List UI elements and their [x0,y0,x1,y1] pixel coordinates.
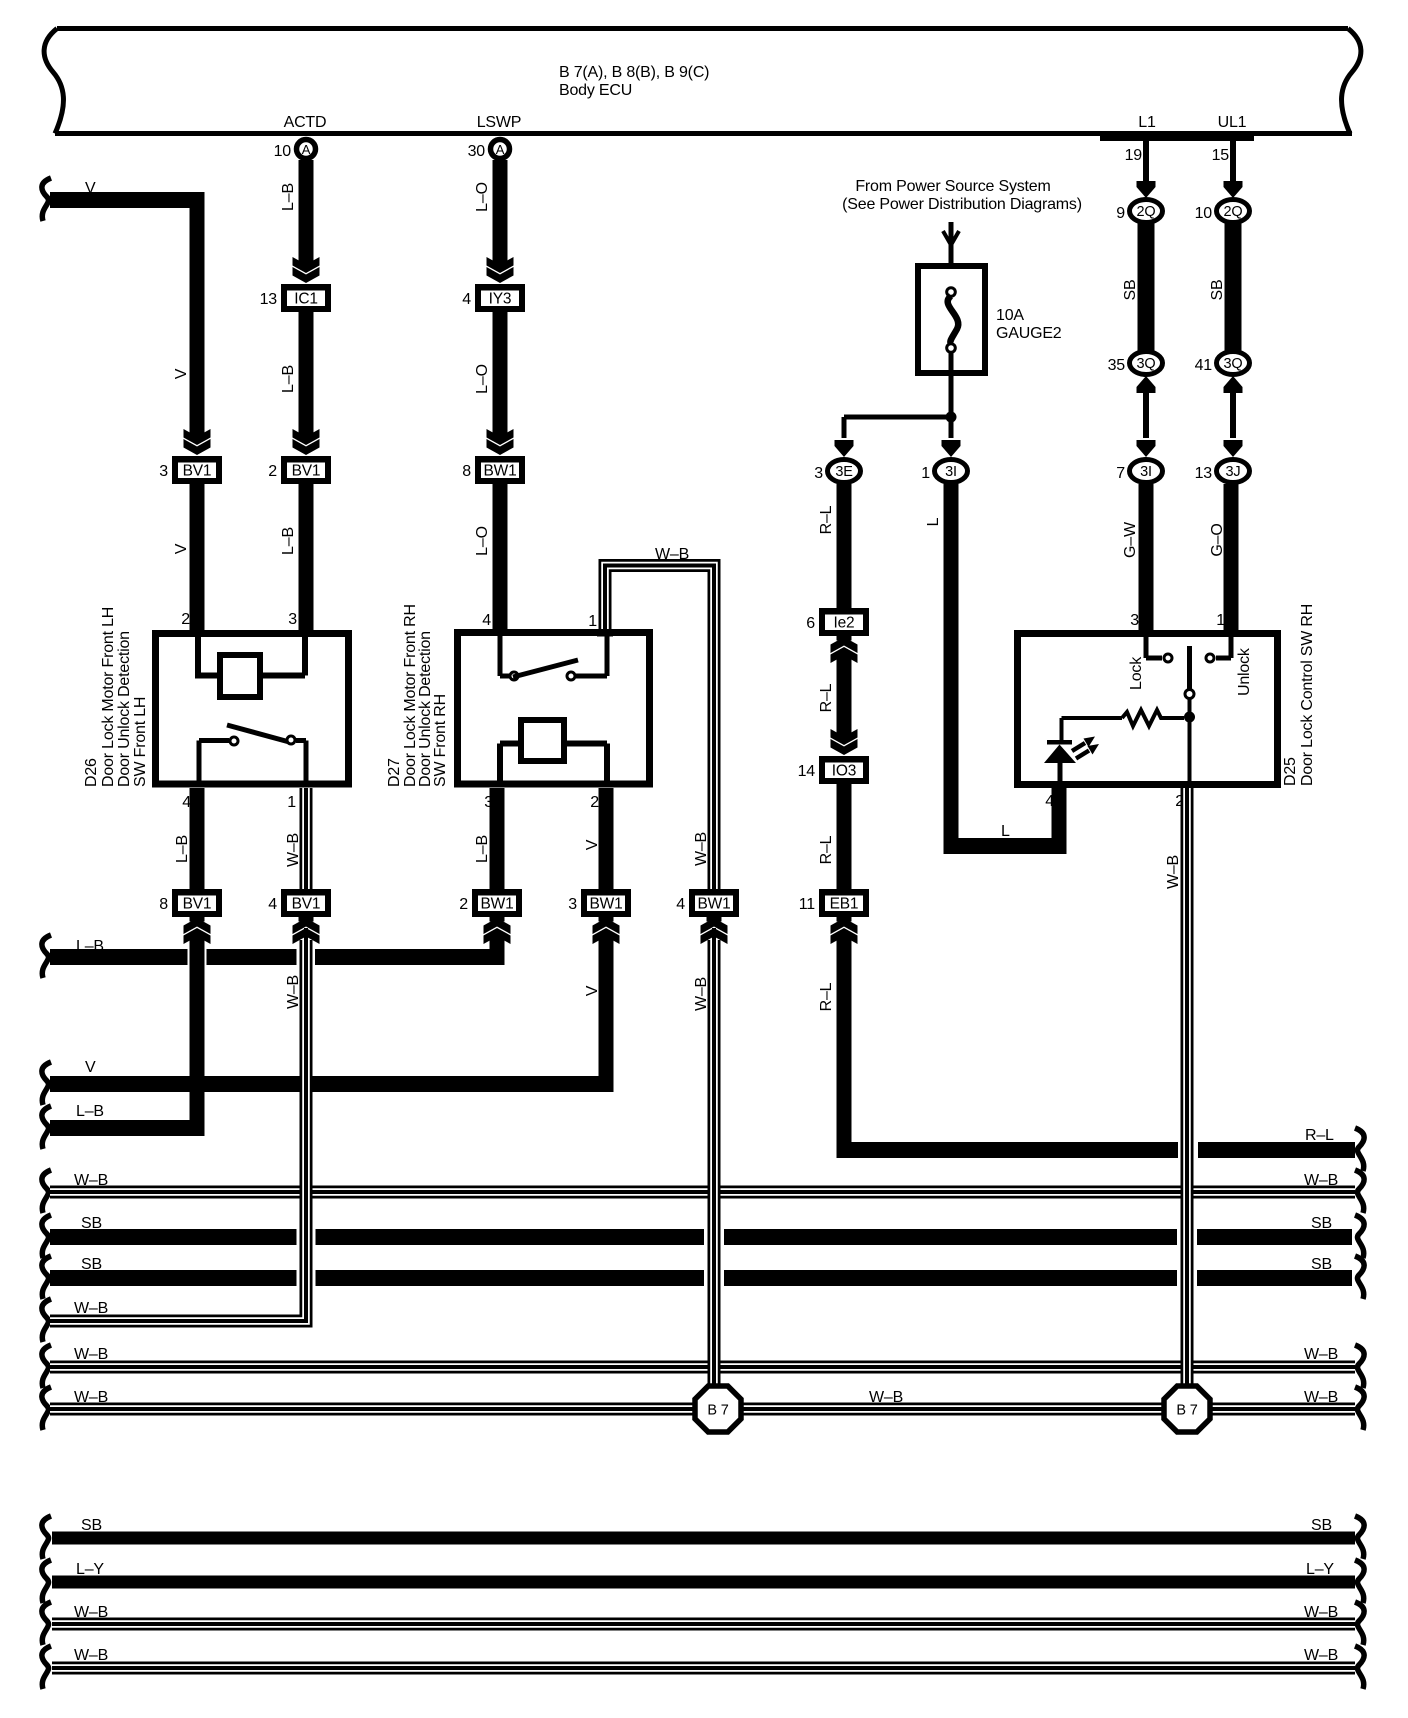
svg-text:L–B: L–B [474,835,491,863]
D26 motor wiring left [195,637,201,676]
connector 1 3I [935,460,968,483]
row2 SB wire [50,1229,297,1245]
svg-text:B 7: B 7 [707,1403,728,1419]
D27 switch blade [513,660,578,677]
connector 13 IC1 [281,284,331,312]
brace row1 right [1355,1170,1364,1213]
svg-text:V: V [173,543,190,554]
svg-text:L–B: L–B [174,835,191,863]
wire L-O IY3 to BW1 [493,312,508,438]
svg-text:10: 10 [274,143,292,160]
svg-text:1: 1 [1216,612,1225,629]
svg-text:V: V [584,985,601,996]
brace rowA right [1355,1516,1364,1559]
svg-text:G–O: G–O [1209,523,1226,556]
svg-text:8: 8 [462,463,471,480]
svg-text:2: 2 [459,896,468,913]
arrow up below 3Q [1137,376,1156,393]
D26 switch contact left [230,737,238,745]
svg-text:GAUGE2: GAUGE2 [996,325,1062,342]
arrow up into 4 BV1 [299,917,314,922]
connector 3 BW1 row B [581,889,631,917]
arrow up into 3 BW1 [599,917,614,922]
svg-text:11: 11 [799,896,816,913]
D27 motor wiring right [564,741,607,747]
D25 lock contact [1164,654,1172,662]
svg-text:3E: 3E [835,464,853,480]
svg-text:D27: D27 [386,758,403,787]
wire G-O to D25 pin1 [1224,484,1239,632]
door lock control SW RH D25 box [1018,634,1278,785]
svg-text:R–L: R–L [818,982,835,1011]
brace V feed [42,178,51,221]
connector 7 3I [1130,460,1163,483]
svg-text:ACTD: ACTD [284,114,327,131]
row1 W-B wire [50,1186,1355,1199]
svg-text:D25: D25 [1282,757,1299,786]
svg-text:9: 9 [1116,205,1125,222]
svg-text:A: A [302,142,311,157]
connector 8 BW1 [475,456,525,484]
svg-text:1: 1 [588,613,597,630]
W-B wire 4BV1 down to row4 corner [50,940,306,1321]
svg-text:W–B: W–B [655,546,689,563]
svg-text:V: V [85,1059,96,1076]
wire 3Q to 3I [1143,393,1149,438]
arrow into 8 BW1 [493,430,508,440]
svg-text:30: 30 [468,143,486,160]
svg-text:2Q: 2Q [1224,204,1243,220]
wire from L1 pin [1143,136,1149,181]
svg-text:10: 10 [1195,205,1213,222]
svg-text:SB: SB [1311,1256,1332,1273]
D26 switch blade [227,725,293,743]
wire from UL1 pin [1230,136,1236,181]
connector 8 BV1 row B [172,889,222,917]
svg-text:W–B: W–B [1304,1647,1338,1664]
D26 motor square [220,655,260,697]
wire L-B from ACTD pin [299,160,314,263]
svg-text:19: 19 [1125,147,1143,164]
pin 10 circle A (ACTD) [297,140,316,159]
arrow into 2Q left [1137,181,1156,198]
connector 14 IO3 [819,756,869,784]
svg-text:BW1: BW1 [484,463,517,480]
wire junction to 3I [949,417,954,438]
brace row1 left [42,1170,51,1213]
arrow into IY3 [493,258,508,268]
svg-text:10A: 10A [996,307,1024,324]
fuse element [947,288,956,297]
connector 3 3E [828,460,861,483]
wire W-B vertical x714 lower [708,940,721,1387]
brace L-B bus2 [42,1106,51,1149]
wire L up into D25 pin4 [1052,786,1067,854]
svg-text:41: 41 [1195,357,1213,374]
svg-text:W–B: W–B [869,1389,903,1406]
svg-text:1: 1 [921,465,930,482]
brace L-B bus1 [42,935,51,978]
svg-text:L–B: L–B [280,365,297,393]
svg-text:W–B: W–B [74,1346,108,1363]
brace rowC left [42,1602,51,1645]
brace row4 left [42,1299,51,1342]
wire V horizontal [50,192,205,208]
wire L-B bus1 seg2 [207,949,297,965]
svg-text:8: 8 [159,896,168,913]
arrow up below EB1 [837,917,852,922]
svg-text:SB: SB [1209,280,1226,301]
row3 SB wire [50,1270,297,1286]
svg-text:3: 3 [814,465,823,482]
svg-text:L–O: L–O [474,182,491,212]
wire R-L horizontal seg1 [837,1142,1179,1158]
D26 motor wiring right [260,673,305,679]
arrow into 3I [1137,440,1156,457]
D27 motor square [521,720,564,761]
D27 motor wiring left [500,741,521,747]
connector 2 BV1 [281,456,331,484]
rowD W-B wire [52,1662,1355,1675]
D25 unlock contact [1206,654,1214,662]
wire W-B vertical x1187 from D25 pin2 [1181,788,1194,1387]
svg-text:35: 35 [1108,357,1126,374]
wire V BV1 to D26 pin2 [190,484,205,632]
ground splice B7 left [695,1386,741,1432]
connector 9 2Q [1130,200,1163,223]
brace R-L right [1355,1128,1364,1171]
brace row2 right [1355,1215,1364,1258]
svg-text:V: V [584,839,601,850]
svg-text:IY3: IY3 [489,291,512,308]
svg-text:L–O: L–O [474,364,491,394]
wire L-B bus1 seg3 [315,949,505,965]
svg-text:L–Y: L–Y [76,1561,104,1578]
wire SB 2Q to 3Q [1138,222,1155,352]
svg-text:3J: 3J [1226,464,1241,480]
rowA SB wire [52,1532,1355,1545]
svg-text:IC1: IC1 [294,291,318,308]
svg-text:SB: SB [1311,1517,1332,1534]
wire SB 2Q to 3Q right [1225,222,1242,352]
wire L-B bus1 seg1 [50,949,188,965]
svg-text:L–Y: L–Y [1306,1561,1334,1578]
svg-text:Door Unlock Detection: Door Unlock Detection [116,631,133,787]
svg-text:B 7(A), B 8(B), B 9(C): B 7(A), B 8(B), B 9(C) [559,64,709,81]
wire fuse to junction [949,376,954,417]
wire L-O BW1 to D27 pin4 [493,484,508,632]
wire L-B BV1 to D26 pin3 [299,484,314,632]
wire 3 BW1 down to V bus [599,936,614,1092]
connector 4 IY3 [475,284,525,312]
svg-text:4: 4 [268,896,277,913]
svg-text:4: 4 [1045,793,1054,810]
svg-text:SW Front RH: SW Front RH [432,694,449,787]
D25 LED emission arrows [1072,743,1085,751]
svg-text:3Q: 3Q [1137,356,1156,372]
svg-text:2: 2 [181,611,190,628]
ECU box B7/B8/B9 Body ECU [57,26,1348,31]
wire R-L corner [837,1142,852,1158]
rowB L-Y wire [52,1576,1355,1589]
arrow into 2 BV1 [299,430,314,440]
svg-text:W–B: W–B [693,832,710,866]
svg-text:W–B: W–B [1304,1389,1338,1406]
svg-text:L–B: L–B [76,1103,104,1120]
svg-text:(See Power Distribution Diagra: (See Power Distribution Diagrams) [842,196,1082,213]
D27 switch contact right [567,672,575,680]
svg-text:L–B: L–B [280,527,297,555]
branch wire to 3E [844,415,951,420]
svg-text:14: 14 [798,763,816,780]
wire into fuse [949,222,954,292]
connector 2 BW1 row B [472,889,522,917]
svg-text:IO3: IO3 [832,763,856,780]
wire R-L horizontal seg2 [1198,1142,1355,1158]
svg-text:2: 2 [268,463,277,480]
svg-text:7: 7 [1116,465,1125,482]
D27 switch contact left [510,672,518,680]
arrow up into 4 BW1 [707,917,722,922]
svg-text:BV1: BV1 [183,896,212,913]
D26 switch wiring right [296,738,306,743]
W-B wire from D26 pin1 [300,788,313,890]
svg-text:Lock: Lock [1128,656,1145,690]
svg-text:G–W: G–W [1122,521,1139,558]
brace row3 right [1355,1256,1364,1299]
brace row6 left [42,1387,51,1430]
connector 10 2Q [1217,200,1250,223]
arrow into 3J [1224,440,1243,457]
wire R-L EB1 down [837,936,852,1158]
brace rowB left [42,1560,51,1603]
svg-text:3: 3 [1130,612,1139,629]
svg-text:3: 3 [288,611,297,628]
svg-text:W–B: W–B [74,1300,108,1317]
svg-text:BW1: BW1 [481,896,514,913]
wire R-L from 3E [837,484,852,609]
pin 30 circle A (LSWP) [491,140,510,159]
row6 W-B wire [50,1403,1355,1416]
svg-text:4: 4 [462,291,471,308]
D27 switch wiring left [498,636,503,676]
svg-text:A: A [496,142,505,157]
svg-text:BW1: BW1 [698,896,731,913]
arrow into IC1 [299,258,314,268]
svg-text:W–B: W–B [1165,855,1182,889]
svg-text:Door Lock Motor Front LH: Door Lock Motor Front LH [100,607,117,787]
wire L-B IC1 to BV1 [299,312,314,438]
svg-text:SB: SB [1311,1215,1332,1232]
svg-text:2Q: 2Q [1137,204,1156,220]
connector 6 Ie2 [819,608,869,636]
wire from 8 BV1 down to L-B bus2 [190,936,205,1128]
svg-text:W–B: W–B [74,1647,108,1664]
connector 3 BV1 [172,456,222,484]
wire G-W to D25 pin3 [1139,484,1154,632]
arrow into 3 BV1 [190,430,205,440]
svg-text:EB1: EB1 [830,896,859,913]
svg-text:R–L: R–L [818,835,835,864]
svg-text:SB: SB [1122,280,1139,301]
svg-text:W–B: W–B [285,833,302,867]
connector 11 EB1 [819,889,869,917]
door lock motor front RH D27 box [458,633,650,785]
svg-text:V: V [173,368,190,379]
svg-text:R–L: R–L [1305,1127,1334,1144]
D25 lock wiring [1144,637,1149,658]
svg-text:W–B: W–B [1304,1172,1338,1189]
connector 41 3Q [1217,352,1250,375]
arrow into 2Q right [1224,181,1243,198]
svg-text:LSWP: LSWP [477,114,522,131]
svg-text:W–B: W–B [285,975,302,1009]
svg-text:Door Lock Control SW RH: Door Lock Control SW RH [1299,604,1316,786]
brace row3 left [42,1256,51,1299]
wire L horizontal [944,838,1067,854]
fuse 10A GAUGE2 box [918,266,985,373]
D26 switch contact right [287,736,295,744]
wire L from 3I down [944,484,959,854]
connector 35 3Q [1130,352,1163,375]
svg-text:From Power Source System: From Power Source System [855,178,1050,195]
svg-text:Body ECU: Body ECU [559,82,632,99]
wire 3Q to 3J [1230,393,1236,438]
svg-text:3Q: 3Q [1224,356,1243,372]
wire L-B bus2 [50,1120,205,1136]
D26 switch wiring left [199,738,229,743]
D25 wire to pin2 [1188,717,1192,781]
svg-text:Ie2: Ie2 [834,615,855,632]
svg-text:UL1: UL1 [1218,114,1247,131]
svg-text:L–B: L–B [280,183,297,211]
svg-text:BV1: BV1 [292,896,321,913]
ground splice B7 right [1164,1386,1210,1432]
rowC W-B wire [52,1618,1355,1631]
wire V from D27 pin2 [599,788,614,890]
svg-text:R–L: R–L [818,505,835,534]
svg-text:3I: 3I [1140,464,1152,480]
brace rowB right [1355,1560,1364,1603]
svg-text:BW1: BW1 [590,896,623,913]
svg-text:13: 13 [260,291,278,308]
arrow up into 8 BV1 [190,917,205,922]
svg-text:W–B: W–B [1304,1346,1338,1363]
wire R-L IO3 to EB1 [837,784,852,890]
svg-text:3I: 3I [945,464,957,480]
svg-text:L: L [925,517,942,526]
arrow down into IO3 [837,730,852,740]
svg-text:SW Front LH: SW Front LH [132,697,149,787]
wire R-L Ie2 to IO3 [837,655,852,732]
brace row5 left [42,1345,51,1388]
wire L-B from D27 pin3 [490,788,505,890]
svg-text:W–B: W–B [1304,1604,1338,1621]
arrow up into 2 BW1 [490,917,505,922]
svg-text:R–L: R–L [818,683,835,712]
wire V vertical [190,192,205,438]
wire V bus [50,1076,614,1092]
brace rowA left [42,1516,51,1559]
svg-text:3: 3 [159,463,168,480]
door lock motor front LH D26 box [156,634,349,785]
svg-text:BV1: BV1 [183,463,212,480]
svg-text:B 7: B 7 [1176,1403,1197,1419]
junction dot [946,412,957,423]
row5 W-B wire [50,1361,1355,1374]
svg-text:1: 1 [287,794,296,811]
wire L-O from LSWP pin [493,160,508,263]
svg-text:V: V [85,180,96,197]
D25 LED [1047,740,1072,745]
svg-text:L–O: L–O [474,526,491,556]
svg-text:Unlock: Unlock [1236,647,1253,696]
svg-text:13: 13 [1195,465,1213,482]
D25 wire resistor to LED [1062,716,1123,720]
brace row6 right [1355,1387,1364,1430]
svg-text:4: 4 [676,896,685,913]
D25 switch blade [1187,646,1192,689]
connector 4 BW1 row B [689,889,739,917]
W-B wire D27 pin1 up and over [605,566,714,891]
brace row5 right [1355,1345,1364,1388]
svg-text:4: 4 [482,612,491,629]
svg-text:D26: D26 [83,758,100,787]
svg-text:W–B: W–B [693,977,710,1011]
svg-text:L: L [1001,823,1010,840]
connector 4 BV1 row B [281,889,331,917]
svg-text:L1: L1 [1138,114,1156,131]
arrow up below Ie2 [837,636,852,641]
arrow up below 3Q right [1224,376,1243,393]
connector 13 3J [1217,460,1250,483]
svg-text:3: 3 [568,896,577,913]
svg-text:15: 15 [1212,147,1230,164]
D25 unlock wiring [1229,637,1234,658]
stub 2 BW1 to L-B bus [490,936,505,958]
D27 switch wiring right [576,674,607,679]
svg-text:BV1: BV1 [292,463,321,480]
brace row2 left [42,1215,51,1258]
wire L-B from D26 pin4 [190,788,205,890]
svg-text:2: 2 [590,794,599,811]
brace V bus [42,1062,51,1105]
brace rowD left [42,1646,51,1689]
brace rowC right [1355,1602,1364,1645]
svg-text:SB: SB [81,1517,102,1534]
D25 resistor [1122,710,1167,726]
brace rowD right [1355,1646,1364,1689]
D25 junction dot [1184,712,1195,723]
svg-text:6: 6 [806,615,815,632]
